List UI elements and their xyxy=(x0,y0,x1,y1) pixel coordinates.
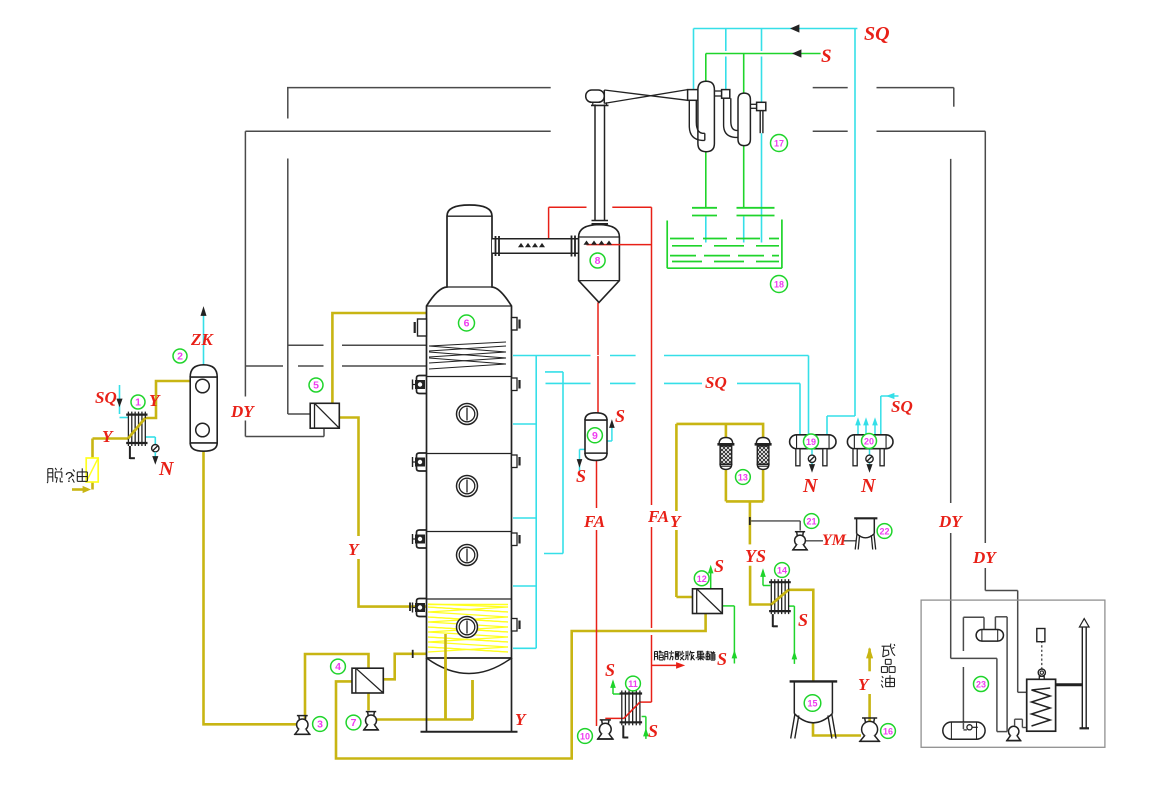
wire SQ vacuum header top y28.5 xyxy=(694,28,858,30)
svg-text:17: 17 xyxy=(774,139,784,149)
valve N exchanger 1 xyxy=(152,445,159,452)
svg-text:S: S xyxy=(798,610,808,630)
wire S stub exchanger 14 top xyxy=(763,585,770,587)
svg-text:Y: Y xyxy=(149,391,161,410)
wire FA branch to collection tank xyxy=(652,664,681,666)
equipment tag circle 10 xyxy=(578,729,593,744)
svg-text:SQ: SQ xyxy=(864,23,890,45)
wire FA spray header vessel 8 xyxy=(549,206,587,208)
day drum in box 23 xyxy=(976,630,1003,642)
wire S stub vessel 9 top xyxy=(607,440,612,442)
wire filter 13 header xyxy=(676,424,763,439)
svg-text:3: 3 xyxy=(317,719,323,731)
wire boiler to stack xyxy=(1056,683,1082,686)
equipment tag circle 5 xyxy=(309,378,323,392)
wire DY right drop x985 to box 23 xyxy=(984,131,986,543)
equipment tag circle 20 xyxy=(862,434,877,449)
svg-text:19: 19 xyxy=(806,437,816,447)
equipment tag circle 17 xyxy=(771,135,788,152)
pump 16 xyxy=(859,718,880,741)
condenser 1 tailpipe xyxy=(689,100,705,140)
svg-text:DY: DY xyxy=(938,512,963,531)
wire fuel oil loop in box 23 xyxy=(951,617,1007,732)
svg-text:SQ: SQ xyxy=(95,388,117,407)
ejector head xyxy=(586,90,609,105)
pump in box 23 xyxy=(1006,726,1021,740)
svg-text:5: 5 xyxy=(313,380,319,392)
vessel 19 xyxy=(790,435,836,466)
svg-text:Y: Y xyxy=(102,427,114,446)
wire S out box 12 right xyxy=(722,605,734,607)
wire FA line vessel 8 cone to vessel 9 xyxy=(597,302,599,355)
svg-text:S: S xyxy=(615,406,625,426)
wire exchanger 4 left to big loop xyxy=(336,614,706,759)
svg-text:YS: YS xyxy=(745,546,766,566)
equipment tag circle 1 xyxy=(131,395,145,409)
svg-text:4: 4 xyxy=(335,661,341,673)
wire vent arrows vessel 20 xyxy=(857,421,859,435)
heat exchanger 11 (plate) xyxy=(620,691,643,739)
hotwell tank 18 xyxy=(667,220,782,269)
wire exchanger 4 right to column feed xyxy=(383,654,426,680)
condenser 2 xyxy=(738,93,750,146)
wire column sparge riser x536 xyxy=(535,356,537,649)
wire DY branch to column coil y366 xyxy=(245,365,283,367)
heat exchanger 12 (cooler) xyxy=(693,589,723,614)
svg-text:S: S xyxy=(605,660,615,680)
wire N drain vessel 19 xyxy=(811,449,813,455)
fuel day tank small xyxy=(1037,629,1045,642)
wire vessel 2 bottom to pump 3 xyxy=(204,451,297,725)
svg-text:16: 16 xyxy=(883,727,893,737)
svg-text:11: 11 xyxy=(628,679,638,689)
filter 13b xyxy=(755,438,772,470)
wire filter 13 bottoms xyxy=(726,469,763,501)
flow element on feed line xyxy=(86,458,98,482)
wire S stub exchanger 11 top xyxy=(613,693,620,695)
vapor duct column to vessel 8 xyxy=(492,236,579,257)
wire column bottoms to pump 7 xyxy=(377,718,473,721)
outlet box xyxy=(757,102,766,110)
svg-text:FA: FA xyxy=(647,507,669,526)
wire black YM line pump 21 to YS junction xyxy=(750,520,801,522)
equipment tag circle 8 xyxy=(590,253,605,268)
svg-text:8: 8 xyxy=(595,255,601,267)
wire SQ condenser feeds xyxy=(693,29,695,90)
svg-text:S: S xyxy=(714,556,724,576)
column side valves xyxy=(413,376,427,394)
wire SQ main right drop x855 xyxy=(854,29,856,417)
column demister xyxy=(429,342,506,369)
svg-text:1: 1 xyxy=(135,397,141,409)
svg-text:14: 14 xyxy=(777,566,787,576)
equipment tag circle 22 xyxy=(877,524,892,539)
condenser 1 inlet box xyxy=(688,90,699,101)
pump 7 xyxy=(363,712,379,730)
equipment tag circle 12 xyxy=(694,571,709,586)
equipment tag circle 7 xyxy=(346,715,361,730)
heat exchanger 4 (economizer) xyxy=(352,668,383,693)
text product oil vertical xyxy=(881,644,895,688)
wire N vent exchanger 1 xyxy=(145,436,155,438)
boiler 23 xyxy=(1027,679,1056,731)
wire exchanger 5 out Y down to column xyxy=(339,418,358,537)
valve vessel 19 drain xyxy=(808,455,815,462)
wire Y to exchanger 1 xyxy=(93,437,129,440)
condenser 1 xyxy=(698,81,715,151)
wire ZK vent vessel 2 xyxy=(203,311,205,365)
wire Y exchanger 1 to vessel 2 xyxy=(145,381,190,418)
wire YS line down to exchanger 14 xyxy=(749,501,752,544)
wire S vacuum header y53.5 xyxy=(706,53,821,55)
svg-text:ZK: ZK xyxy=(190,330,214,349)
svg-text:Y: Y xyxy=(515,710,527,729)
vessel 9 xyxy=(585,413,607,461)
outlet drop pipe xyxy=(759,111,761,134)
wire SQ drops to vessel 19 xyxy=(799,434,801,436)
svg-text:7: 7 xyxy=(351,717,357,729)
wire exchanger 14 to tank 15 xyxy=(789,590,814,682)
wire DY riser x246 to exchanger 5 bottom xyxy=(244,131,246,396)
hotwell flange bars xyxy=(692,207,717,209)
svg-text:13: 13 xyxy=(738,473,748,483)
wire S stub vessel 9 bottom xyxy=(580,448,586,450)
pump 21 xyxy=(792,532,808,550)
wire feed oil inlet xyxy=(72,488,88,491)
condenser 2 tailpipe xyxy=(724,98,739,137)
svg-text:S: S xyxy=(576,466,586,486)
wire SQ stub into vessel 20 xyxy=(881,395,899,397)
svg-text:10: 10 xyxy=(580,732,590,742)
equipment tag circle 9 xyxy=(587,428,602,443)
wire Y riser to box 12 xyxy=(676,596,692,599)
wire SQ distribution line y355.5 xyxy=(513,355,591,357)
svg-text:21: 21 xyxy=(806,517,816,527)
equipment tag circle 14 xyxy=(775,563,790,578)
wire tailpipe dips into hotwell xyxy=(705,217,707,243)
wire column draw to exchanger 5 xyxy=(332,313,426,403)
tank 22 xyxy=(854,518,877,549)
column skirt xyxy=(426,658,428,732)
column internal downcomers xyxy=(444,634,447,720)
vessel 20 xyxy=(847,435,893,466)
wire S out exchanger 11 bottom xyxy=(642,716,646,718)
vessel 2 (measuring tank) xyxy=(190,365,217,451)
svg-text:FA: FA xyxy=(583,512,605,531)
heat exchanger 5 (DY heater) xyxy=(310,403,339,428)
svg-text:SQ: SQ xyxy=(705,373,727,392)
pump 10 xyxy=(597,720,614,739)
svg-text:DY: DY xyxy=(230,402,255,421)
wire pump to boiler xyxy=(1015,719,1027,727)
vessel 8 riser pipe xyxy=(592,104,609,223)
column bottom head xyxy=(427,658,512,674)
wire DY right drop x952 to box 23 xyxy=(953,88,955,107)
svg-text:S: S xyxy=(717,649,727,669)
svg-text:S: S xyxy=(821,46,832,67)
svg-text:SQ: SQ xyxy=(891,397,913,416)
wire FA vessel 9 to pump 10 xyxy=(596,461,598,509)
wire N drain vessel 20 xyxy=(869,449,871,455)
equipment tag circle 16 xyxy=(881,724,896,739)
equipment tag circle 13 xyxy=(736,470,751,485)
wire SQ distribution line y383.4 xyxy=(546,382,591,384)
svg-text:23: 23 xyxy=(976,680,986,690)
svg-text:2: 2 xyxy=(177,351,183,363)
interstage box xyxy=(722,90,730,99)
svg-text:N: N xyxy=(158,458,175,480)
valve vessel 20 drain xyxy=(866,455,873,462)
wire DY header lower y131 xyxy=(245,130,550,132)
svg-text:?: ? xyxy=(65,469,73,486)
wire tank 15 to pump 16 xyxy=(813,723,861,736)
column packing (bright) xyxy=(428,604,508,652)
svg-text:6: 6 xyxy=(464,318,470,330)
svg-text:N: N xyxy=(802,475,819,497)
wire exchanger 1 diagonal xyxy=(128,418,145,439)
wire pump 10 discharge through exchanger 11 xyxy=(605,717,624,719)
equipment tag circle 21 xyxy=(804,514,819,529)
column manholes xyxy=(457,404,478,425)
equipment tag circle 15 xyxy=(804,695,821,712)
column side nozzle tabs xyxy=(512,378,518,391)
heat exchanger 1 (plate) xyxy=(126,412,147,459)
wire pump 7 to exchanger 4 bottom xyxy=(367,693,370,711)
svg-text:S: S xyxy=(648,721,658,741)
burner on boiler xyxy=(1038,641,1045,679)
box 23 boundary xyxy=(921,600,1105,747)
svg-text:22: 22 xyxy=(879,527,889,537)
wire FA spray inside vessel 8 xyxy=(587,244,652,246)
equipment tag circle 2 xyxy=(173,349,187,363)
equipment tag circle 3 xyxy=(313,717,328,732)
text de-gummed oil xyxy=(47,468,87,486)
svg-text:9: 9 xyxy=(592,430,598,442)
svg-text:18: 18 xyxy=(774,280,784,290)
equipment tag circle 18 xyxy=(771,276,788,293)
wire column sparge riser x563 xyxy=(562,372,564,554)
svg-text:12: 12 xyxy=(697,574,707,584)
wire day tank suction xyxy=(963,617,984,727)
equipment tag circle 23 xyxy=(974,677,989,692)
wire SQ inlet exchanger 1 xyxy=(119,385,121,414)
wire DY branch to column coil y345 xyxy=(288,344,324,346)
heat exchanger 14 (plate) xyxy=(769,579,791,627)
wire pump 3 discharge to exchanger 4 xyxy=(305,654,369,719)
fuel tank in box 23 xyxy=(943,722,985,739)
svg-text:N: N xyxy=(860,475,877,497)
column manhole lower xyxy=(457,617,478,638)
wire S feeds to condensers xyxy=(705,54,707,82)
equipment tag circle 19 xyxy=(804,434,819,449)
tank 15 xyxy=(790,681,838,738)
text fatty acid collection tank xyxy=(654,651,715,661)
pump 3 xyxy=(294,716,310,735)
spray nozzles vessel 8 xyxy=(584,241,589,244)
wire condenser 17 tailpipes down xyxy=(705,152,707,208)
svg-text:DY: DY xyxy=(972,548,997,567)
svg-text:Y: Y xyxy=(858,675,870,694)
svg-text:Y: Y xyxy=(670,512,682,531)
wire DY riser x288 to exchanger 5 xyxy=(287,88,289,119)
column 6 deodorizer shell xyxy=(427,205,512,658)
svg-text:Y: Y xyxy=(348,540,360,559)
filter 13a xyxy=(717,438,734,470)
vessel 8 scrubber xyxy=(579,225,620,303)
equipment tag circle 4 xyxy=(331,659,346,674)
wire product oil riser xyxy=(868,694,871,721)
stack in box 23 xyxy=(1079,619,1089,729)
column nozzles top section xyxy=(415,318,520,337)
wire FA line vessel 8 to exchanger 11 xyxy=(651,207,653,505)
flange ticks on yellow feeds xyxy=(409,603,411,612)
svg-text:15: 15 xyxy=(807,699,817,709)
svg-text:20: 20 xyxy=(864,437,874,447)
equipment tag circle 11 xyxy=(626,676,641,691)
ejector nozzle (bowtie) xyxy=(604,90,687,104)
equipment tag circle 6 xyxy=(459,315,475,331)
wire S stub box 12 top xyxy=(710,570,712,589)
wire DY header upper y88 xyxy=(287,87,551,89)
wire S out exchanger 14 bottom xyxy=(789,605,795,607)
svg-text:YM: YM xyxy=(822,532,847,549)
